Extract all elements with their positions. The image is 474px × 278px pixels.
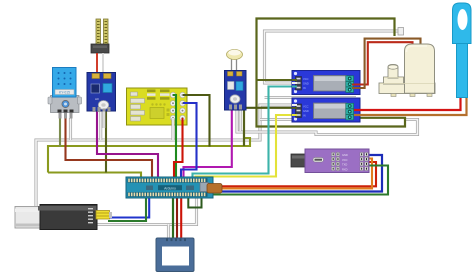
svg-text:GND: GND [303,82,309,86]
svg-text:TXD: TXD [342,163,347,167]
wire dark-olive light sensor pin to olive rail [243,110,245,146]
svg-text:VCC: VCC [303,105,309,109]
pump terminal connector [398,28,404,36]
wire dark-olive branch to relay1 [257,79,295,81]
svg-text:IN: IN [303,86,306,90]
LDR photoresistor on light sensor module [227,50,243,73]
ESP-01 wifi module U3 [127,88,188,125]
Arduino Nano A1 [126,177,213,198]
LCD frame module [156,238,194,272]
svg-text:A0: A0 [95,97,99,101]
DHT11 module U1 [48,68,82,119]
svg-text:GND: GND [342,153,348,157]
wire green bus Arduino to purple module VCC [212,166,388,195]
svg-text:Arduino: Arduino [164,186,176,190]
wire red ESP to Arduino [174,118,183,178]
water level sensor S1 [453,3,472,98]
wire sage DHT pin1 to olive bus [59,118,61,147]
wire red relay2 to water sensor [354,96,461,110]
wire white stub ESP pad to white bus [171,118,174,140]
wire green Arduino to LCD [172,198,174,240]
wire green USB-TTL to Arduino [108,198,146,221]
relay module K1 [292,71,360,95]
wire blue USB-TTL to Arduino [108,198,149,218]
wire white W1 bus Arduino-GND loop to relay2 [36,105,294,225]
fork leg wire red [96,53,98,73]
wire dark-olive soil pin to olive bottom rail [105,108,107,173]
wire olive bus top rail [48,138,250,173]
wire red relay1 COM to pump [352,42,413,84]
USB-TTL adapter U5 [15,205,112,230]
wire red bus Arduino to purple module RXD [212,162,376,186]
wire white tap to relay2 lower pin [260,118,292,121]
wire white pump lead to relay1 [265,31,401,83]
wire dark-olive ESP pad to olive bus [183,95,210,147]
fork leg wire white [102,53,104,73]
wire orange bus Arduino to purple module TXD [212,159,372,189]
relay2 pin wire stubs [292,105,297,115]
wire dark-olive pump lead long loop under relay2 [257,19,406,127]
wire white stub light sensor pin [239,110,242,131]
light sensor module U4 [225,71,247,111]
relay module K2 [292,98,360,122]
svg-text:KY-015: KY-015 [59,91,70,95]
wire blue ESP to Arduino [181,103,197,178]
svg-text:VCC: VCC [342,158,348,162]
purple module U6 [291,149,369,173]
wire teal relay1 IN to Arduino [193,87,295,179]
svg-text:RXD: RXD [342,167,348,171]
wire olive bus bottom rail to Arduino pin [48,173,141,179]
wire brown relay1 NO to pump [352,39,421,88]
wire red Arduino to LCD [180,198,182,240]
wire white stub DHT pin3 to white bus [69,118,72,140]
wire brown relay2 to water sensor [354,96,467,115]
soil moisture module U2 [87,73,116,113]
Arduino power bundle connector [207,184,222,194]
wire dark red Arduino to LCD [176,198,178,240]
wire white LCD lead from W1 [167,225,170,241]
relay1 pin wire stubs [292,80,297,87]
wire yellow relay2 IN to Arduino [196,115,295,178]
wire dark-olive light sensor to relay2 [244,107,294,109]
soil moisture fork probe [91,19,109,73]
wire white light-sensor long run under pump [237,108,418,135]
svg-text:IN: IN [303,114,306,118]
svg-text:GND: GND [303,109,309,113]
water pump M1 [379,28,435,97]
wire white stubs soil module pins [101,110,104,140]
wire maroon DHT pin2 to Arduino [66,118,153,178]
wire purple light sensor to Arduino [184,108,232,178]
wire purple soil sensor to Arduino [97,108,158,178]
svg-text:VCC: VCC [303,77,309,81]
wire green jumper Arduino bottom pins [188,198,201,208]
wire white between relays [265,96,357,99]
wire green ESP to Arduino [173,95,176,178]
wire blue bus Arduino to purple module GND [212,155,382,192]
